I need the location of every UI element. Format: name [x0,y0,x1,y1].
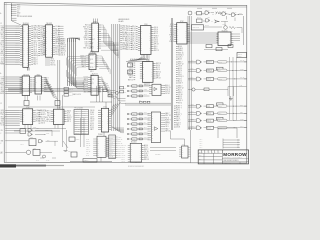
svg-text:WR 13: WR 13 [15,64,19,66]
svg-text:74LS151: 74LS151 [221,30,227,32]
svg-text:RST 15: RST 15 [128,79,133,81]
hbus left [8,89,101,92]
svg-text:POE 8: POE 8 [51,61,56,63]
uart bottom bus [70,157,112,162]
svg-text:RDY 12: RDY 12 [86,145,90,147]
svg-text:MORROW: MORROW [223,152,247,157]
svg-text:SQ2 3: SQ2 3 [176,122,181,124]
right col rows [176,45,184,61]
svg-text:CS 10: CS 10 [132,91,135,93]
svg-text:D7 11: D7 11 [122,159,125,161]
svg-text:RD 6: RD 6 [127,30,131,32]
svg-text:INT 4: INT 4 [82,127,85,129]
svg-text:D0 14: D0 14 [156,65,160,67]
svg-text:RST 15: RST 15 [86,143,90,145]
svg-text:D0 14: D0 14 [110,158,113,160]
svg-text:D7 11: D7 11 [223,10,226,12]
svg-text:S10 6: S10 6 [207,120,211,122]
svg-text:DQ1 9: DQ1 9 [178,100,183,102]
svg-text:P/O J4 CONN: P/O J4 CONN [75,108,83,110]
svg-text:7442: 7442 [37,74,41,76]
modem ic U18 left labels [122,145,131,163]
svg-text:SQ2 3: SQ2 3 [40,26,45,28]
svg-text:D7 11: D7 11 [176,118,180,120]
svg-text:D7 11: D7 11 [33,45,37,47]
svg-text:SQ2 3: SQ2 3 [15,47,19,49]
gate row bottom 6 [127,136,149,141]
channel bus top bends [68,38,80,42]
left border zone labels [0,12,2,155]
latch U4 [32,74,48,94]
svg-text:D0 14: D0 14 [191,77,194,79]
svg-text:MREQ: MREQ [45,129,49,131]
svg-text:1771: 1771 [103,107,107,109]
svg-text:CLK 2: CLK 2 [131,34,135,36]
svg-text:MREQ: MREQ [240,69,244,71]
svg-text:9602: 9602 [30,137,33,139]
connector J1 power ladder [11,3,32,26]
svg-text:DQ1 9: DQ1 9 [110,144,114,146]
svg-text:TR1602: TR1602 [98,134,103,136]
svg-text:RD 6: RD 6 [218,113,221,115]
svg-text:POE 8: POE 8 [40,43,45,45]
svg-text:MORROW DESIGNS INC: MORROW DESIGNS INC [128,166,144,168]
ram U11 [140,60,161,83]
svg-text:D1 9: D1 9 [82,125,85,127]
svg-text:CS 10: CS 10 [154,40,158,42]
border frame [4,3,247,163]
bus driver U12 [169,21,189,44]
svg-text:D0 14: D0 14 [131,28,135,30]
svg-text:RST 15: RST 15 [51,65,56,67]
svg-text:S10 6: S10 6 [154,27,158,29]
svg-text:S10 6: S10 6 [51,63,55,65]
svg-text:DQ1 9: DQ1 9 [83,81,88,83]
svg-text:RD 6: RD 6 [55,52,59,54]
svg-text:CS 10: CS 10 [191,111,194,113]
svg-text:RD 6: RD 6 [55,43,59,45]
right logic row 3 [188,77,246,81]
svg-text:D7 11: D7 11 [86,138,89,140]
svg-text:CE 5: CE 5 [1,59,4,61]
svg-text:D7 11: D7 11 [40,38,44,40]
gate row bottom 2 [127,117,149,121]
buffer U1 [20,23,31,67]
svg-text:BUSY 7: BUSY 7 [176,106,182,108]
svg-text:WR 13: WR 13 [1,83,5,85]
svg-text:SQ2 3: SQ2 3 [122,149,126,151]
svg-text:RDY 12: RDY 12 [82,83,87,85]
right section transition row [188,84,246,96]
svg-text:S10 6: S10 6 [33,62,37,64]
svg-text:M13 2: M13 2 [178,92,182,94]
svg-text:CS 10: CS 10 [55,26,59,28]
svg-text:M13 2: M13 2 [131,45,135,47]
right section mid verticals [230,57,237,120]
svg-text:CS 10: CS 10 [1,38,5,40]
svg-text:WR 13: WR 13 [55,30,60,32]
svg-text:DRN: DRN [199,155,202,157]
svg-text:CHK: CHK [199,158,202,160]
svg-text:DQ1 9: DQ1 9 [178,83,183,85]
svg-text:CLK 2: CLK 2 [240,126,244,128]
top border zone ticks [197,7,232,9]
svg-text:RDY 12: RDY 12 [118,143,122,145]
svg-text:D11 8: D11 8 [144,94,147,96]
main vertical bus bundle [112,24,120,131]
svg-text:RD 6: RD 6 [165,117,169,119]
svg-text:M13 2: M13 2 [86,141,90,143]
long vertical net [171,18,172,130]
svg-text:CE 5: CE 5 [75,113,78,115]
svg-text:D0 14: D0 14 [1,112,5,114]
U7 [83,21,101,51]
svg-text:WR 13: WR 13 [90,119,94,121]
svg-text:SQ2 3: SQ2 3 [223,24,226,26]
cap bank lines [223,139,240,149]
svg-text:M13 2: M13 2 [75,121,79,123]
svg-text:RDY 12: RDY 12 [86,151,90,153]
oscillator box [192,25,204,30]
svg-text:DQ1 9: DQ1 9 [126,41,131,43]
svg-text:INT 4: INT 4 [82,121,85,123]
U2 right rows [59,39,67,57]
svg-text:INT 4: INT 4 [126,28,130,30]
svg-text:WR 13: WR 13 [144,159,149,161]
row3 left input labels [1,110,20,127]
svg-text:RST 15: RST 15 [15,30,19,32]
svg-text:MREQ: MREQ [1,28,5,30]
U19 top wire [171,131,185,147]
svg-text:2114: 2114 [57,108,60,110]
svg-text:CE 5: CE 5 [85,46,89,48]
svg-text:555: 555 [34,147,36,149]
left small cluster caps [63,137,79,157]
svg-text:S10 6: S10 6 [144,127,147,129]
svg-text:M13 2: M13 2 [126,37,130,39]
svg-text:D11 8: D11 8 [1,114,5,116]
svg-text:DQ1 9: DQ1 9 [132,86,136,88]
svg-text:RD 6: RD 6 [178,78,182,80]
address bus vertical channel [68,38,76,86]
bc right wires [150,148,176,151]
svg-text:CLK 2: CLK 2 [1,36,5,38]
svg-text:CLK 2: CLK 2 [178,57,182,59]
middle bus labels top [119,18,130,23]
svg-text:WR 13: WR 13 [40,53,45,55]
svg-text:M13 2: M13 2 [178,86,182,88]
top gate chain [197,11,244,16]
svg-text:IORQ 3: IORQ 3 [110,150,114,152]
svg-text:RDY 12: RDY 12 [1,116,6,118]
bc verticals 2 [81,118,85,147]
svg-text:D1 9: D1 9 [178,72,181,74]
svg-text:INT 4: INT 4 [178,70,182,72]
svg-text:RDY 12: RDY 12 [178,88,184,90]
svg-text:74LS138: 74LS138 [23,74,29,76]
svg-text:W2 TEST: W2 TEST [155,154,161,156]
latch U9 [82,74,100,96]
row3 below-IC wires [5,125,66,132]
svg-text:RDY 12: RDY 12 [156,63,161,65]
bus stub rows top [120,25,128,51]
svg-text:CE 5: CE 5 [47,115,51,117]
U7 output fan [101,25,119,58]
svg-text:RST 15: RST 15 [61,45,66,47]
svg-text:CLK 2: CLK 2 [144,153,148,155]
U8 left curve fan [67,57,86,77]
svg-text:RD 6: RD 6 [15,53,18,55]
right logic row 7 [188,125,246,130]
scan shadow bottom strip [0,164,64,167]
svg-text:R4 1K: R4 1K [46,160,50,162]
svg-text:DQ1 9: DQ1 9 [90,121,94,123]
svg-text:MREQ: MREQ [1,40,5,42]
svg-text:WR 13: WR 13 [75,115,79,117]
crystal clock circuit [99,86,118,98]
svg-text:C3 .1: C3 .1 [200,139,203,141]
svg-text:DQ1 9: DQ1 9 [126,39,131,41]
svg-text:CLK 2: CLK 2 [44,79,48,81]
svg-text:MREQ: MREQ [1,118,5,120]
svg-text:2114: 2114 [146,60,149,62]
svg-text:BUSY 7: BUSY 7 [144,84,148,86]
bus mid bends to gate area [116,97,126,104]
ram U6 [45,108,72,125]
svg-text:CS 10: CS 10 [144,112,147,114]
U16 right wires [234,34,241,41]
svg-text:16 14 8: 16 14 8 [78,131,82,133]
row1 net labels left of U1 [15,24,19,65]
connector table J3 [74,108,89,135]
svg-text:BUSY 7: BUSY 7 [41,114,47,116]
gate row top 1 [127,84,149,88]
bottom row B [1,137,58,146]
cap list [200,139,203,149]
svg-text:RD 6: RD 6 [110,154,113,156]
svg-text:D11 8: D11 8 [61,55,65,57]
svg-text:WR 13: WR 13 [83,85,88,87]
gate row top 2 [127,89,149,93]
svg-text:D11 8: D11 8 [126,26,130,28]
svg-text:RD 6: RD 6 [154,48,158,50]
svg-text:D7 11: D7 11 [67,115,71,117]
latch U3 [20,74,32,95]
svg-text:D11 8: D11 8 [33,59,37,61]
gate row bottom 3 [127,122,149,126]
right col rows 2 [176,62,184,85]
svg-text:RQ: RQ [1,152,3,154]
osc row extra [205,24,242,33]
svg-text:CS 10: CS 10 [144,151,148,153]
bottom row A gates [28,127,52,136]
svg-text:P/O S-100 BUS EDGE: P/O S-100 BUS EDGE [17,16,32,18]
svg-text:D7 11: D7 11 [40,30,44,32]
svg-text:D11 8: D11 8 [178,66,182,68]
svg-text:S10 6: S10 6 [40,47,44,49]
U11 small side boxes [128,63,133,74]
svg-text:D11 8: D11 8 [132,129,135,131]
fdc bottom wire [103,132,105,136]
svg-text:MREQ: MREQ [61,49,66,51]
right logic row 5 [188,111,246,115]
U18 right rows [142,144,149,161]
second gate row [197,19,229,26]
svg-text:POE 8: POE 8 [178,48,183,50]
svg-text:RD 6: RD 6 [1,45,4,47]
bc verticals [62,95,64,147]
svg-text:M13 2: M13 2 [122,151,126,153]
svg-text:SQ2 3: SQ2 3 [67,119,71,121]
svg-text:D1 9: D1 9 [127,34,130,36]
fdc top wire [90,102,112,108]
svg-text:WR 13: WR 13 [33,30,38,32]
svg-text:MREQ: MREQ [165,122,170,124]
svg-text:RDY 12: RDY 12 [1,89,6,91]
svg-text:WR 13: WR 13 [122,155,126,157]
svg-text:MREQ: MREQ [33,55,38,57]
svg-text:RDY 12: RDY 12 [83,27,88,29]
U14 right rows [164,84,171,95]
svg-text:C4 .1: C4 .1 [200,141,203,143]
svg-text:D0 14: D0 14 [86,155,90,157]
svg-text:D7 11: D7 11 [1,32,5,34]
svg-text:INT 4: INT 4 [170,28,174,30]
svg-text:D0 14: D0 14 [1,49,5,51]
svg-text:RDY 12: RDY 12 [82,123,87,125]
svg-text:D1 9: D1 9 [110,140,113,142]
gate row top 3 [127,94,149,98]
svg-text:MREQ: MREQ [76,139,80,141]
svg-text:PH: PH [1,130,3,132]
svg-text:-12: -12 [17,11,19,13]
svg-text:D0 14: D0 14 [90,55,94,57]
svg-text:RST 15: RST 15 [165,87,170,89]
svg-text:D0 14: D0 14 [154,31,158,33]
bc verticals 3 [66,130,68,151]
svg-text:CLK 2: CLK 2 [131,39,135,41]
rom U10 [138,24,159,55]
svg-text:IORQ 3: IORQ 3 [132,134,136,136]
mid hbus [126,61,150,63]
svg-text:C5 .1: C5 .1 [200,143,203,145]
svg-text:DQ1 9: DQ1 9 [90,116,94,118]
svg-text:RDY 12: RDY 12 [61,51,67,53]
svg-text:S10 6: S10 6 [33,40,37,42]
svg-text:WR 13: WR 13 [128,75,133,77]
svg-text:WR 13: WR 13 [90,110,94,112]
svg-text:MREQ: MREQ [33,36,38,38]
svg-text:IORQ 3: IORQ 3 [33,26,38,28]
svg-text:8T97: 8T97 [93,21,97,23]
right logic row 1 [188,59,246,64]
svg-text:D7 11: D7 11 [170,39,174,41]
flat label box bottom [83,159,97,162]
svg-text:BUSY 7: BUSY 7 [67,117,72,119]
svg-text:D1 9: D1 9 [1,43,4,45]
right logic row 2 [188,67,246,72]
U15 right rows [163,112,170,133]
svg-text:CE 5: CE 5 [33,49,37,51]
svg-text:CS 10: CS 10 [46,133,50,135]
svg-text:SQ2 3: SQ2 3 [1,62,5,64]
svg-text:INT 4: INT 4 [126,47,130,49]
right edge vert top [243,16,245,45]
svg-text:D0 14: D0 14 [1,125,5,127]
fdc right diagonals [111,103,120,117]
svg-text:WR 13: WR 13 [110,156,114,158]
topright bundle [188,33,218,43]
data separator U14 [149,84,163,95]
svg-text:D11 8: D11 8 [218,62,222,64]
channel bus bottom bends [68,80,84,88]
svg-text:S10 6: S10 6 [21,144,24,146]
right section left bus [188,16,191,130]
mid bus wires [125,103,171,105]
row1 pullup resistors [45,59,56,67]
uart U17 left labels [86,138,97,156]
svg-text:IORQ 3: IORQ 3 [206,10,210,12]
svg-text:CS 10: CS 10 [1,47,5,49]
svg-text:RD 6: RD 6 [178,74,182,76]
svg-text:2 MHZ CLOCK: 2 MHZ CLOCK [72,94,81,96]
svg-text:CS 10: CS 10 [1,123,5,125]
svg-text:BUSY 7: BUSY 7 [61,47,67,49]
svg-text:RD 6: RD 6 [85,33,89,35]
svg-text:D1 9: D1 9 [218,70,221,72]
second row extra [197,16,212,22]
svg-text:D11 8: D11 8 [15,61,18,63]
svg-text:M13 2: M13 2 [1,93,5,95]
svg-text:CE 5: CE 5 [132,37,136,39]
svg-text:74LS373: 74LS373 [46,23,52,25]
svg-text:S10 6: S10 6 [154,29,158,31]
svg-text:M13 2: M13 2 [1,110,5,112]
top right connector box [237,53,247,59]
svg-text:RDY 12: RDY 12 [240,77,244,79]
svg-text:CS 10: CS 10 [46,121,50,123]
svg-text:D11 8: D11 8 [176,127,180,129]
svg-text:MREQ: MREQ [144,89,147,91]
svg-text:C: C [0,143,1,145]
U1 drops [28,67,30,70]
title block [198,150,248,165]
svg-text:CONN: CONN [238,56,242,58]
row2 left input labels [1,77,22,95]
svg-text:RDY 12: RDY 12 [154,50,159,52]
svg-text:MREQ: MREQ [191,104,194,106]
svg-text:IORQ 3: IORQ 3 [15,42,19,44]
svg-text:C6 .1: C6 .1 [200,145,203,147]
svg-text:D7 11: D7 11 [170,24,174,26]
svg-text:BUSY 7: BUSY 7 [82,131,87,133]
svg-text:CLK 2: CLK 2 [69,89,73,91]
svg-text:D11 8: D11 8 [144,155,148,157]
svg-text:RD 6: RD 6 [132,96,135,98]
svg-text:DQ1 9: DQ1 9 [165,91,170,93]
svg-text:WR 13: WR 13 [154,44,159,46]
svg-text:WR 13: WR 13 [83,89,88,91]
U7 top wires [94,19,98,24]
bus bottom bend into fdc [112,126,124,133]
svg-text:RD 6: RD 6 [170,33,174,35]
svg-text:RDY 12: RDY 12 [156,71,161,73]
gate row bottom 5 [127,132,149,136]
svg-text:DQ1 9: DQ1 9 [15,51,19,53]
bottom row A wires [1,129,26,134]
ground symbol right section [229,96,233,101]
svg-text:D1 9: D1 9 [75,125,78,127]
